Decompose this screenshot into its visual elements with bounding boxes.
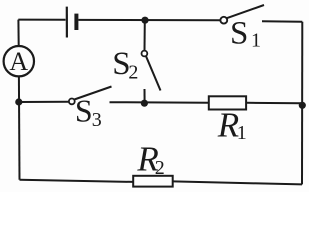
svg-text:2: 2 (155, 157, 165, 179)
svg-text:3: 3 (92, 109, 102, 131)
svg-text:S: S (75, 92, 93, 128)
svg-text:A: A (9, 47, 28, 76)
svg-text:1: 1 (237, 122, 247, 144)
svg-text:1: 1 (251, 30, 261, 52)
svg-text:S: S (230, 16, 248, 52)
svg-text:2: 2 (128, 62, 138, 84)
